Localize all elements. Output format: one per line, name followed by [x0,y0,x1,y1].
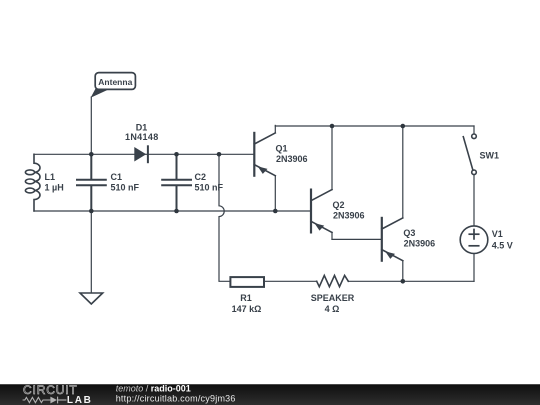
svg-text:4 Ω: 4 Ω [325,304,340,314]
svg-text:Q1: Q1 [276,144,288,154]
svg-text:SW1: SW1 [480,151,500,161]
svg-text:2N3906: 2N3906 [333,211,365,221]
transistor Q1 [254,125,275,211]
svg-text:V1: V1 [492,229,503,239]
svg-text:L1: L1 [45,172,56,182]
logo icon zigzag diode [23,397,67,404]
svg-text:4.5 V: 4.5 V [492,241,513,251]
wire R1 branch vertical with hop [219,154,230,281]
junction dots [89,124,405,284]
svg-text:temoto / radio-001: temoto / radio-001 [116,384,191,394]
svg-text:510 nF: 510 nF [195,183,224,193]
svg-text:SPEAKER: SPEAKER [311,293,355,303]
svg-text:2N3906: 2N3906 [276,154,308,164]
svg-text:2N3906: 2N3906 [404,238,436,248]
svg-text:1N4148: 1N4148 [125,132,159,142]
svg-text:http://circuitlab.com/cy9jm36: http://circuitlab.com/cy9jm36 [116,393,236,403]
wire node B rail [34,210,310,212]
svg-text:510 nF: 510 nF [111,183,140,193]
wire speaker to V1 branch [348,280,474,282]
wire top rail [275,125,474,127]
svg-text:147 kΩ: 147 kΩ [232,304,262,314]
svg-text:Q2: Q2 [333,200,345,210]
capacitor C2 [162,154,191,211]
transistor Q2 [311,126,381,239]
antenna flag [91,73,136,98]
resistor SPEAKER [317,275,349,286]
footer bar [0,384,540,405]
ground [80,211,103,304]
transistor Q3 [382,126,403,281]
switch SW1 [463,126,476,226]
svg-text:C2: C2 [195,172,207,182]
svg-text:1 µH: 1 µH [45,183,64,193]
svg-text:C1: C1 [111,172,123,182]
wire node A rail [34,153,253,155]
svg-text:R1: R1 [240,293,252,303]
svg-text:Q3: Q3 [403,228,415,238]
antenna wire [90,97,92,154]
voltage source V1 [460,226,488,281]
resistor R1 [230,277,264,287]
inductor L1 [25,154,40,211]
diode D1 [134,146,148,162]
wire R1 to speaker [264,280,317,282]
svg-text:LAB: LAB [67,395,93,405]
capacitor C1 [77,154,106,211]
svg-text:Antenna: Antenna [98,77,132,87]
